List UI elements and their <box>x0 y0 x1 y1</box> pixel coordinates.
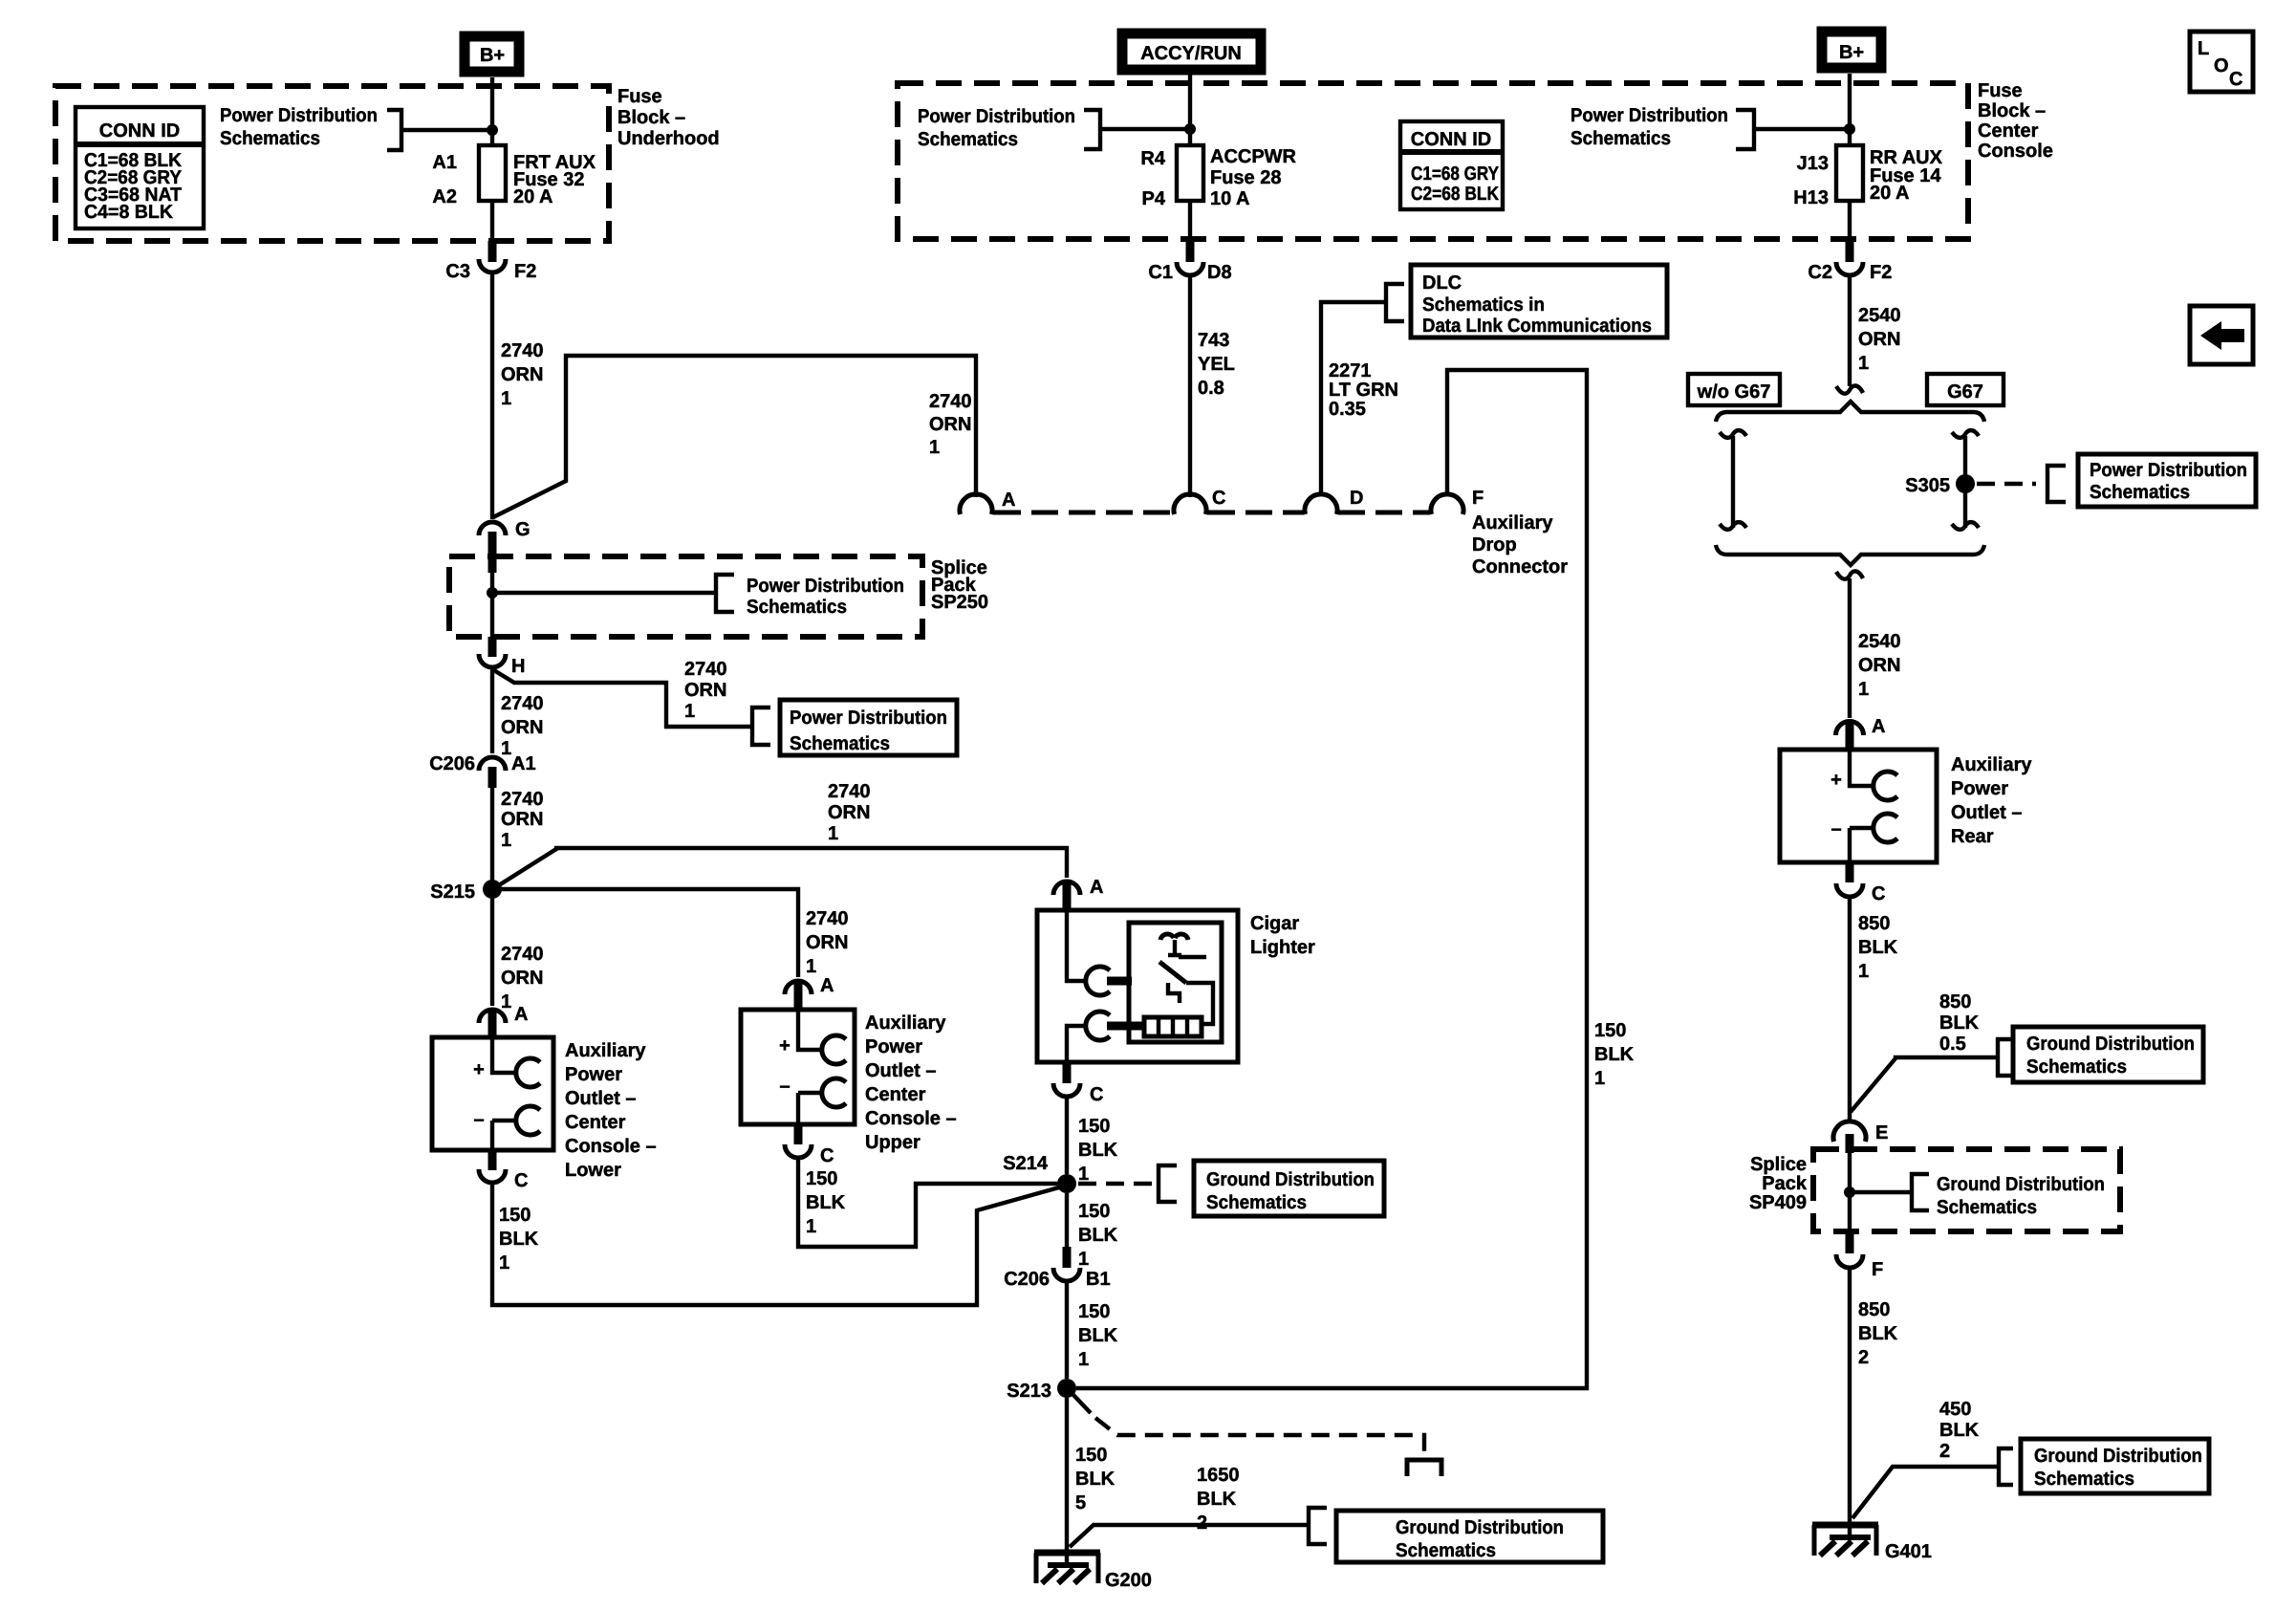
svg-text:1: 1 <box>501 830 511 851</box>
label Auxiliary Drop Connector <box>1472 512 1568 577</box>
svg-text:Schematics: Schematics <box>1570 128 1671 149</box>
option brace bottom <box>1716 545 1984 565</box>
svg-text:Console: Console <box>1978 141 2053 162</box>
svg-text:Connector: Connector <box>1472 556 1568 577</box>
label Auxiliary Power Outlet Center Console Upper <box>865 1012 957 1153</box>
reference box DLC Schematics in Data Link Communications <box>1411 265 1667 337</box>
svg-text:F: F <box>1872 1259 1883 1280</box>
svg-text:Schematics: Schematics <box>1396 1540 1496 1561</box>
wire label 743 YEL 0.8 <box>1198 330 1235 399</box>
auxiliary power outlet rear <box>1780 750 1937 862</box>
svg-text:S214: S214 <box>1003 1153 1049 1174</box>
svg-text:20 A: 20 A <box>1870 183 1910 204</box>
svg-text:C3: C3 <box>445 261 470 282</box>
splice S215 <box>430 880 502 903</box>
label Power Distribution Schematics (right fuse block) <box>1570 105 1850 149</box>
svg-text:ORN: ORN <box>501 968 543 989</box>
drop connector terminal C <box>1174 488 1225 514</box>
option branch G67 with splice S305 <box>1905 430 1979 530</box>
svg-text:ORN: ORN <box>501 809 543 830</box>
wire option split to rear outlet A <box>1848 578 1852 718</box>
svg-text:Schematics: Schematics <box>1937 1197 2037 1218</box>
fuse FRT AUX Fuse 32 20A <box>432 145 596 207</box>
svg-text:Data LInk Communications: Data LInk Communications <box>1422 316 1652 337</box>
option branch w/o G67 <box>1720 430 1746 530</box>
svg-text:1650: 1650 <box>1197 1465 1240 1486</box>
wire F to G401 <box>1848 1268 1852 1525</box>
wire S215 to center console upper outlet <box>492 889 798 977</box>
svg-text:1: 1 <box>499 1252 509 1274</box>
fuse RR AUX Fuse 14 20A <box>1793 145 1942 208</box>
svg-text:BLK: BLK <box>1858 1323 1898 1344</box>
svg-text:2740: 2740 <box>806 908 849 929</box>
power feed ACCY/RUN <box>1122 33 1261 70</box>
svg-text:E: E <box>1875 1122 1888 1143</box>
svg-text:Power: Power <box>1951 778 2008 799</box>
svg-text:Schematics: Schematics <box>2026 1056 2127 1078</box>
svg-text:ACCPWR: ACCPWR <box>1210 146 1297 167</box>
svg-text:Ground Distribution: Ground Distribution <box>1937 1174 2105 1195</box>
svg-text:Auxiliary: Auxiliary <box>1951 754 2032 775</box>
svg-text:B+: B+ <box>480 45 505 66</box>
svg-text:–: – <box>779 1076 790 1097</box>
svg-text:ORN: ORN <box>828 802 870 823</box>
svg-text:Fuse: Fuse <box>1978 80 2023 101</box>
wire label 2740 ORN 1 <box>501 789 544 851</box>
ground wire lower outlet to S214 <box>492 1183 1059 1305</box>
svg-text:5: 5 <box>1075 1492 1086 1513</box>
svg-text:2: 2 <box>1197 1513 1207 1534</box>
svg-text:C2: C2 <box>1808 262 1832 283</box>
option brace top <box>1716 402 1984 422</box>
svg-text:Power Distribution: Power Distribution <box>747 576 904 597</box>
svg-text:Outlet –: Outlet – <box>565 1088 636 1109</box>
connector A (cigar lighter) <box>1053 877 1103 911</box>
wire F drop to S213 (150 BLK 1) <box>1076 370 1587 1388</box>
connector H <box>479 637 525 677</box>
svg-text:1: 1 <box>806 1216 816 1237</box>
ground G200 <box>1034 1553 1152 1591</box>
wire label 150 BLK 1 (drop connector ground) <box>1594 1020 1635 1089</box>
wire branch H to power distribution reference <box>492 659 770 745</box>
wire break symbol <box>1836 385 1863 393</box>
svg-text:Power: Power <box>565 1064 622 1085</box>
svg-text:Lighter: Lighter <box>1250 937 1315 958</box>
connector C (cigar lighter) <box>1053 1062 1103 1105</box>
connector A (upper outlet) <box>785 975 834 1010</box>
svg-text:BLK: BLK <box>1078 1140 1118 1161</box>
svg-text:BLK: BLK <box>1075 1469 1116 1490</box>
wire 743 YEL to drop connector C <box>1188 275 1192 497</box>
svg-text:YEL: YEL <box>1198 354 1235 375</box>
svg-text:D8: D8 <box>1207 262 1232 283</box>
svg-text:150: 150 <box>1078 1116 1110 1137</box>
svg-text:1: 1 <box>1078 1249 1089 1270</box>
wire label 150 BLK 1 <box>1078 1201 1118 1270</box>
power feed B+ (left, Fuse Block Underhood) <box>465 36 519 72</box>
svg-text:+: + <box>473 1059 485 1080</box>
reference box Ground Distribution Schematics (S214) <box>1194 1161 1384 1216</box>
svg-text:2540: 2540 <box>1858 305 1901 326</box>
svg-text:1: 1 <box>1078 1164 1089 1185</box>
svg-text:Pack: Pack <box>1762 1173 1808 1194</box>
svg-text:1: 1 <box>1858 961 1869 982</box>
svg-text:BLK: BLK <box>1078 1325 1118 1346</box>
CONN ID table (left) <box>76 107 204 229</box>
wire label 850 BLK 2 <box>1858 1299 1898 1368</box>
svg-text:G200: G200 <box>1105 1570 1152 1591</box>
connector F (SP409) <box>1836 1231 1883 1280</box>
svg-text:CONN ID: CONN ID <box>99 120 180 142</box>
label Fuse Block Center Console <box>1978 80 2053 162</box>
svg-text:H13: H13 <box>1793 187 1829 208</box>
svg-text:–: – <box>1830 818 1841 839</box>
svg-text:Schematics: Schematics <box>2034 1469 2134 1490</box>
svg-text:Upper: Upper <box>865 1132 921 1153</box>
svg-text:Schematics: Schematics <box>747 597 847 618</box>
svg-text:C: C <box>514 1170 528 1191</box>
wire 2540 ORN to option split <box>1848 275 1852 386</box>
svg-text:0.35: 0.35 <box>1329 399 1366 420</box>
svg-text:Center: Center <box>865 1084 926 1105</box>
wire ACCY/RUN to fuse <box>1188 75 1192 145</box>
connector C3 / F2 <box>445 241 536 282</box>
svg-text:A2: A2 <box>432 186 457 207</box>
reference box Ground Distribution Schematics (450 BLK) <box>2021 1439 2209 1493</box>
wire label 2540 ORN 1 <box>1858 631 1901 700</box>
svg-text:S215: S215 <box>430 882 475 903</box>
auxiliary power outlet center console upper <box>741 1010 855 1124</box>
connector A (lower outlet) <box>479 1004 528 1038</box>
wire label 2740 ORN 1 (lower outlet feed) <box>501 944 544 1012</box>
svg-text:Fuse: Fuse <box>617 86 662 107</box>
wire label 150 BLK 5 <box>1075 1445 1116 1513</box>
svg-text:Console –: Console – <box>865 1108 957 1129</box>
svg-text:Power Distribution: Power Distribution <box>220 105 378 126</box>
svg-text:1: 1 <box>501 738 511 759</box>
svg-text:Ground Distribution: Ground Distribution <box>2026 1034 2195 1055</box>
svg-text:Cigar: Cigar <box>1250 913 1299 934</box>
svg-text:ORN: ORN <box>501 717 543 738</box>
svg-text:A: A <box>1002 490 1015 511</box>
drop connector terminal D <box>1305 488 1363 514</box>
svg-text:Underhood: Underhood <box>617 128 720 149</box>
wire label 2740 ORN 1 (branch) <box>929 391 972 458</box>
reference box Power Distribution Schematics <box>780 700 957 755</box>
svg-text:2: 2 <box>1858 1347 1869 1368</box>
svg-text:ORN: ORN <box>1858 655 1900 676</box>
wire B+ to fuse A1 <box>490 77 494 145</box>
wire break symbol below braces <box>1836 571 1863 578</box>
svg-text:ORN: ORN <box>1858 329 1900 350</box>
svg-text:BLK: BLK <box>1078 1225 1118 1246</box>
wire rear outlet to E <box>1848 897 1852 1121</box>
connector C206 / A1 <box>429 753 535 788</box>
svg-text:10 A: 10 A <box>1210 188 1250 209</box>
svg-text:1: 1 <box>1078 1349 1089 1370</box>
wire C206 to S215 <box>490 788 494 881</box>
option tag G67 <box>1927 374 2004 405</box>
svg-text:150: 150 <box>1078 1301 1110 1322</box>
label Cigar Lighter <box>1250 913 1315 958</box>
svg-text:C206: C206 <box>429 753 475 774</box>
connector C1 / D8 <box>1148 241 1231 283</box>
splice pack SP250 dashed box <box>449 556 922 637</box>
fuse block underhood dashed box <box>55 86 609 241</box>
svg-text:A: A <box>514 1004 528 1025</box>
svg-text:C: C <box>2229 69 2242 90</box>
svg-text:O: O <box>2214 55 2229 76</box>
connector C206 / B1 <box>1004 1247 1110 1290</box>
label Auxiliary Power Outlet Center Console Lower <box>565 1040 657 1181</box>
wire label 2740 ORN 1 <box>501 340 544 409</box>
svg-text:Fuse 28: Fuse 28 <box>1210 167 1281 188</box>
svg-text:Center: Center <box>1978 120 2039 142</box>
svg-text:ORN: ORN <box>501 364 543 385</box>
svg-text:B+: B+ <box>1839 42 1864 63</box>
svg-text:Schematics in: Schematics in <box>1422 294 1545 316</box>
svg-text:C: C <box>1872 883 1885 904</box>
wire fuse A2 to connector <box>490 201 494 242</box>
wire label 850 BLK 1 <box>1858 913 1898 982</box>
svg-text:R4: R4 <box>1140 148 1165 169</box>
svg-text:A: A <box>1090 877 1103 898</box>
svg-text:Auxiliary: Auxiliary <box>865 1012 946 1034</box>
svg-text:Schematics: Schematics <box>1206 1192 1307 1213</box>
svg-text:L: L <box>2198 38 2209 59</box>
svg-text:1: 1 <box>929 437 940 458</box>
svg-text:BLK: BLK <box>1939 1012 1980 1034</box>
svg-text:F: F <box>1472 488 1484 509</box>
dashed reference wire from S213 <box>1073 1395 1441 1476</box>
svg-text:Schematics: Schematics <box>2090 482 2190 503</box>
wire label 150 BLK 1 <box>499 1205 539 1274</box>
wire label 2540 ORN 1 <box>1858 305 1901 374</box>
svg-text:150: 150 <box>806 1168 837 1189</box>
svg-text:C: C <box>820 1145 834 1166</box>
svg-text:ORN: ORN <box>684 680 726 701</box>
svg-text:BLK: BLK <box>1858 937 1898 958</box>
label Splice Pack SP409 <box>1749 1154 1808 1213</box>
svg-text:J13: J13 <box>1797 153 1829 174</box>
svg-text:CONN ID: CONN ID <box>1411 129 1491 150</box>
dashed reference wire from S305 <box>1977 466 2066 502</box>
wire S213 to G200 <box>1065 1398 1069 1553</box>
svg-text:ORN: ORN <box>806 932 848 953</box>
svg-text:Outlet –: Outlet – <box>865 1060 936 1081</box>
wire C206 to S213 <box>1065 1281 1069 1379</box>
svg-text:Drop: Drop <box>1472 534 1517 555</box>
svg-text:2740: 2740 <box>684 659 727 680</box>
svg-text:A: A <box>1872 716 1885 737</box>
svg-text:ACCY/RUN: ACCY/RUN <box>1140 43 1242 64</box>
svg-text:DLC: DLC <box>1422 272 1462 294</box>
drop connector terminal A <box>960 490 1015 514</box>
svg-text:–: – <box>473 1109 484 1130</box>
connector C2 / F2 <box>1808 241 1892 283</box>
svg-text:BLK: BLK <box>806 1192 846 1213</box>
wire label 150 BLK 1 <box>1078 1301 1118 1370</box>
svg-text:150: 150 <box>1078 1201 1110 1222</box>
connector C (upper outlet) <box>785 1124 834 1166</box>
svg-text:C1=68 GRY: C1=68 GRY <box>1411 163 1500 185</box>
svg-text:A1: A1 <box>511 753 536 774</box>
junction node on right B+ feed <box>1844 123 1855 135</box>
svg-text:150: 150 <box>1075 1445 1107 1466</box>
ground G401 <box>1812 1525 1932 1562</box>
svg-text:S213: S213 <box>1007 1381 1051 1402</box>
svg-text:1: 1 <box>501 388 511 409</box>
auxiliary power outlet center console lower <box>432 1037 553 1150</box>
svg-text:ORN: ORN <box>929 414 971 435</box>
svg-text:C206: C206 <box>1004 1269 1050 1290</box>
wire label 2740 ORN 1 (upper outlet feed) <box>806 908 849 977</box>
svg-text:Ground Distribution: Ground Distribution <box>1206 1169 1375 1190</box>
junction node on ACCY feed <box>1184 123 1196 135</box>
navigation arrow box <box>2190 306 2253 364</box>
svg-text:1: 1 <box>1594 1068 1605 1089</box>
svg-text:S305: S305 <box>1905 475 1950 496</box>
svg-text:2740: 2740 <box>501 693 544 714</box>
power feed B+ (right, Fuse Block Center Console) <box>1822 32 1881 68</box>
label Splice Pack SP250 <box>931 557 988 613</box>
svg-text:2740: 2740 <box>501 944 544 965</box>
wire B+ to fuse J13 <box>1848 74 1852 145</box>
svg-text:Power Distribution: Power Distribution <box>2090 460 2247 481</box>
svg-text:0.8: 0.8 <box>1198 378 1224 399</box>
svg-text:Console –: Console – <box>565 1136 657 1157</box>
label Power Distribution Schematics (ACCY feed) <box>918 106 1190 150</box>
wire branch 850 BLK 0.5 to reference <box>1851 991 2011 1112</box>
svg-text:LT GRN: LT GRN <box>1329 380 1398 401</box>
svg-text:2740: 2740 <box>501 340 544 361</box>
svg-text:C2=68 BLK: C2=68 BLK <box>1411 184 1499 205</box>
wire branch 1650 BLK 2 to reference <box>1070 1465 1327 1547</box>
dashed reference wire from S214 <box>1078 1165 1177 1202</box>
svg-text:Outlet –: Outlet – <box>1951 802 2022 823</box>
svg-text:BLK: BLK <box>1939 1420 1980 1441</box>
option tag w/o G67 <box>1688 374 1780 405</box>
svg-text:Auxiliary: Auxiliary <box>1472 512 1553 533</box>
reference box Ground Distribution Schematics (850 BLK) <box>2013 1027 2203 1082</box>
cigar lighter <box>1037 910 1238 1062</box>
svg-text:D: D <box>1350 488 1363 509</box>
wire label 2271 LT GRN 0.35 <box>1329 360 1398 420</box>
splice pack SP409 dashed box <box>1813 1149 2120 1231</box>
wire label 2740 ORN 1 (cigar lighter feed) <box>828 781 871 844</box>
wire S215 to cigar lighter A <box>494 848 1067 888</box>
svg-text:Power Distribution: Power Distribution <box>918 106 1075 127</box>
svg-text:C: C <box>1090 1084 1103 1105</box>
fuse ACCPWR Fuse 28 10A <box>1140 145 1296 209</box>
label Power Distribution Schematics (left fuse block) <box>220 105 492 150</box>
svg-text:2740: 2740 <box>828 781 871 802</box>
svg-text:Auxiliary: Auxiliary <box>565 1040 646 1061</box>
wire label 150 BLK 1 (upper outlet ground) <box>806 1168 846 1237</box>
ground wire upper outlet to S214 <box>798 1158 1057 1247</box>
wire label 150 BLK 1 (cigar lighter ground) <box>1078 1116 1118 1185</box>
page locator box L O C <box>2190 32 2253 92</box>
SP409 junction node and reference <box>1844 1153 2105 1231</box>
svg-text:1: 1 <box>828 823 838 844</box>
svg-text:2271: 2271 <box>1329 360 1372 381</box>
svg-text:Power: Power <box>865 1036 922 1057</box>
svg-text:A1: A1 <box>432 152 457 173</box>
svg-text:B1: B1 <box>1086 1269 1111 1290</box>
svg-text:C: C <box>1212 488 1225 509</box>
svg-text:Block –: Block – <box>617 107 685 128</box>
svg-text:w/o G67: w/o G67 <box>1697 381 1771 403</box>
svg-text:150: 150 <box>1594 1020 1626 1041</box>
wire label 2740 ORN 1 <box>501 693 544 759</box>
svg-text:Schematics: Schematics <box>790 733 890 754</box>
svg-text:2540: 2540 <box>1858 631 1901 652</box>
svg-text:450: 450 <box>1939 1399 1971 1420</box>
splice S213 <box>1007 1379 1076 1402</box>
connector G <box>479 519 531 573</box>
svg-text:SP409: SP409 <box>1749 1192 1807 1213</box>
wire 2740 ORN to G <box>490 274 494 519</box>
wire fuse P4 to connector <box>1188 201 1192 242</box>
svg-text:BLK: BLK <box>1197 1489 1237 1510</box>
svg-text:BLK: BLK <box>499 1229 539 1250</box>
SP250 junction node and reference <box>487 575 904 618</box>
svg-text:Splice: Splice <box>1750 1154 1807 1175</box>
svg-text:1: 1 <box>501 991 511 1012</box>
svg-text:G67: G67 <box>1947 381 1983 403</box>
svg-text:850: 850 <box>1858 1299 1890 1320</box>
wire D to DLC reference <box>1321 284 1404 496</box>
svg-text:C1: C1 <box>1148 262 1173 283</box>
svg-text:G: G <box>515 519 531 540</box>
splice S214 <box>1003 1153 1076 1193</box>
svg-text:Schematics: Schematics <box>220 128 320 149</box>
svg-text:20 A: 20 A <box>513 186 553 207</box>
CONN ID table (right) <box>1400 121 1503 209</box>
reference box Power Distribution Schematics (S305) <box>2078 454 2256 507</box>
svg-text:Power Distribution: Power Distribution <box>790 708 947 729</box>
svg-text:1: 1 <box>1858 353 1869 374</box>
svg-text:743: 743 <box>1198 330 1229 351</box>
svg-text:H: H <box>511 656 525 677</box>
svg-text:G401: G401 <box>1885 1541 1932 1562</box>
connector C (rear outlet) <box>1836 862 1885 904</box>
drop connector terminal F <box>1431 488 1484 514</box>
svg-text:BLK: BLK <box>1594 1044 1635 1065</box>
svg-text:Schematics: Schematics <box>918 129 1018 150</box>
svg-text:P4: P4 <box>1142 188 1166 209</box>
svg-text:0.5: 0.5 <box>1939 1034 1966 1055</box>
svg-text:+: + <box>779 1035 791 1056</box>
svg-text:1: 1 <box>684 701 695 722</box>
svg-text:Ground Distribution: Ground Distribution <box>1396 1517 1564 1538</box>
connector C (lower outlet) <box>479 1150 528 1191</box>
wire fuse H13 to connector <box>1848 201 1852 242</box>
wire cigar lighter to S214 <box>1065 1097 1069 1174</box>
svg-text:Ground Distribution: Ground Distribution <box>2034 1446 2202 1467</box>
svg-text:+: + <box>1830 770 1842 791</box>
svg-text:Lower: Lower <box>565 1160 621 1181</box>
svg-text:Center: Center <box>565 1112 626 1133</box>
svg-text:A: A <box>820 975 834 996</box>
connector A (rear outlet) <box>1836 716 1886 751</box>
svg-text:Block –: Block – <box>1978 100 2046 121</box>
svg-text:1: 1 <box>1858 679 1869 700</box>
svg-text:F2: F2 <box>514 261 536 282</box>
svg-text:SP250: SP250 <box>931 592 988 613</box>
svg-text:2: 2 <box>1939 1441 1950 1462</box>
connector E <box>1833 1121 1888 1153</box>
